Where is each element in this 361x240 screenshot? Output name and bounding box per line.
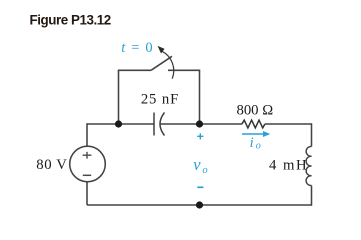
svg-text:Figure P13.12: Figure P13.12 bbox=[30, 13, 111, 28]
resistor R1 800 ohm bbox=[242, 120, 265, 128]
capacitor C1 25 nF bbox=[154, 113, 165, 136]
svg-text:800 Ω: 800 Ω bbox=[236, 103, 273, 119]
node left junction bbox=[115, 120, 122, 127]
wire top-middle horizontal bbox=[161, 123, 243, 125]
label vo minus bbox=[197, 186, 203, 188]
wire top-right horizontal bbox=[265, 123, 312, 125]
svg-text:io: io bbox=[250, 135, 261, 151]
switch SW1 bbox=[118, 46, 200, 79]
svg-text:4 mH: 4 mH bbox=[269, 158, 308, 174]
svg-text:vo: vo bbox=[193, 155, 207, 176]
node bottom junction bbox=[196, 201, 203, 208]
current arrow io bbox=[242, 131, 270, 137]
wire switch branch left vertical bbox=[118, 70, 120, 124]
inductor L1 4 mH bbox=[306, 146, 311, 185]
wire switch branch right vertical bbox=[199, 70, 201, 124]
svg-text:25 nF: 25 nF bbox=[141, 92, 179, 108]
wire left rail upper bbox=[86, 123, 88, 205]
svg-text:80 V: 80 V bbox=[36, 157, 67, 173]
node right junction bbox=[196, 120, 203, 127]
wire bottom rail bbox=[87, 204, 312, 206]
label vo plus bbox=[197, 133, 203, 139]
wire top-left horizontal bbox=[87, 123, 154, 125]
svg-text:t=0: t=0 bbox=[121, 40, 152, 56]
voltage source V1 80 V bbox=[70, 146, 106, 182]
wire right rail bbox=[311, 123, 313, 205]
